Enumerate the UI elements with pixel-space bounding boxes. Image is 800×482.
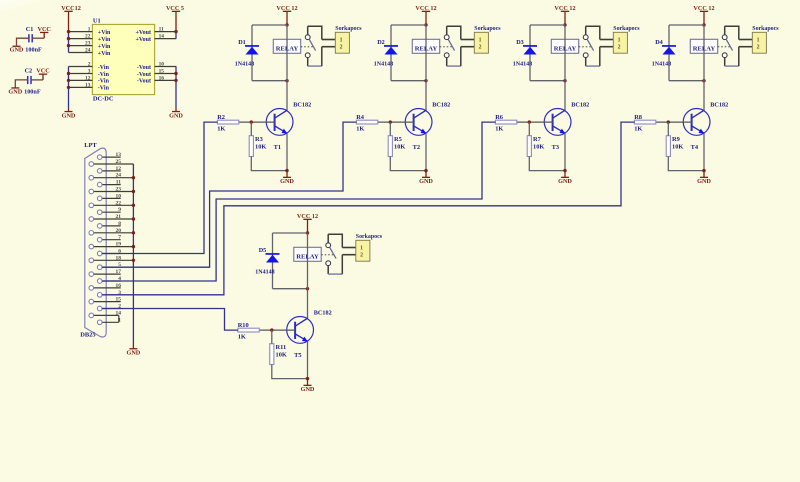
- wire -Vout bus: [175, 67, 177, 109]
- svg-text:DC-DC: DC-DC: [93, 95, 114, 102]
- pin 1 +Vin (U1): [69, 27, 111, 36]
- svg-text:1K: 1K: [238, 334, 246, 341]
- wire emitter (channel 4): [703, 133, 705, 170]
- wire diode branch (channel 5): [272, 233, 274, 289]
- junction node ground bus pin 24: [132, 176, 135, 179]
- junction node -Vin bus: [67, 72, 70, 75]
- svg-text:21: 21: [116, 214, 122, 220]
- svg-text:BC182: BC182: [571, 101, 589, 108]
- wire coil top (channel 5): [273, 232, 308, 234]
- svg-text:20: 20: [116, 228, 122, 234]
- pin 3 -Vin (U1): [69, 69, 110, 78]
- wire coil bottom (channel 3): [530, 80, 565, 82]
- junction node top (channel 3): [563, 23, 566, 26]
- pin 12 (DB25): [97, 166, 121, 173]
- svg-text:16: 16: [116, 283, 122, 289]
- svg-text:1: 1: [88, 27, 91, 33]
- pin 21 (DB25): [89, 214, 133, 221]
- svg-text:+Vin: +Vin: [98, 51, 111, 57]
- svg-text:T4: T4: [691, 144, 699, 151]
- junction node ground bus pin 18: [132, 259, 135, 262]
- ground GND (channel 2): [419, 171, 433, 186]
- svg-text:R4: R4: [356, 114, 365, 121]
- svg-text:GND: GND: [419, 178, 433, 185]
- svg-text:22: 22: [85, 34, 91, 40]
- power VCC (C2): [36, 68, 49, 80]
- svg-text:C2: C2: [25, 68, 33, 75]
- wire pulldown bottom (channel 3): [529, 157, 565, 171]
- wire pulldown bottom (channel 5): [272, 365, 308, 379]
- svg-text:12: 12: [85, 75, 91, 81]
- ground GND (channel 3): [558, 171, 572, 186]
- pin 1 (DB25): [97, 317, 121, 324]
- wire net pin2 to R10 (channel 5): [102, 309, 238, 331]
- wire VCC12 bus to +Vin pins: [68, 32, 70, 53]
- junction node base (channel 2): [389, 120, 392, 123]
- wire diode branch (channel 2): [390, 25, 392, 81]
- svg-text:C1: C1: [26, 26, 34, 33]
- transistor T4 BC182: [683, 109, 710, 136]
- svg-text:DB25: DB25: [80, 332, 95, 339]
- junction node ground bus pin 22: [132, 204, 135, 207]
- svg-text:23: 23: [116, 187, 122, 193]
- pin 22 (DB25): [89, 200, 133, 207]
- svg-text:D5: D5: [259, 247, 267, 254]
- svg-text:-Vout: -Vout: [137, 72, 151, 78]
- svg-text:RELAY: RELAY: [554, 45, 577, 52]
- wire pulldown top (channel 5): [271, 330, 273, 344]
- svg-text:LPT: LPT: [84, 142, 97, 149]
- svg-text:+Vout: +Vout: [135, 37, 151, 43]
- pin 2 -Vin (U1): [69, 62, 110, 71]
- svg-text:1: 1: [479, 37, 482, 43]
- svg-text:14: 14: [159, 34, 165, 40]
- junction node +Vin bus: [67, 37, 70, 40]
- svg-text:GND: GND: [10, 47, 24, 54]
- svg-text:19: 19: [116, 242, 122, 248]
- wire base (channel 2): [378, 121, 414, 123]
- wire base (channel 5): [259, 329, 295, 331]
- diode D4 1N4148: [662, 45, 676, 54]
- junction node -Vin bus: [67, 86, 70, 89]
- svg-text:Sorkapocs: Sorkapocs: [356, 234, 383, 240]
- svg-text:1: 1: [360, 245, 363, 251]
- wire -Vin bus: [68, 67, 70, 109]
- junction node ground bus pin 20: [132, 231, 135, 234]
- svg-text:GND: GND: [301, 386, 315, 393]
- svg-text:1N4148: 1N4148: [652, 62, 671, 68]
- junction node emitter (channel 3): [563, 169, 566, 172]
- svg-text:8: 8: [118, 221, 121, 227]
- svg-text:-Vout: -Vout: [137, 79, 151, 85]
- svg-text:R9: R9: [672, 136, 680, 143]
- switch contact SW5: [326, 234, 336, 274]
- junction node top (channel 4): [702, 23, 705, 26]
- svg-text:9: 9: [118, 207, 121, 213]
- junction node emitter (channel 4): [702, 169, 705, 172]
- svg-text:GND: GND: [280, 178, 294, 185]
- pin 11 (DB25): [97, 180, 121, 187]
- svg-text:GND: GND: [697, 178, 711, 185]
- junction node top (channel 5): [306, 231, 309, 234]
- wire pulldown bottom (channel 4): [668, 157, 704, 171]
- wire switch to terminal pin 2 (channel 4): [725, 47, 753, 66]
- pin 22 +Vin (U1): [69, 34, 111, 43]
- svg-text:RELAY: RELAY: [276, 45, 299, 52]
- pin 23 (DB25): [89, 187, 133, 194]
- pin 20 (DB25): [89, 228, 133, 235]
- terminal block connector (channel 3): [613, 32, 627, 53]
- svg-text:11: 11: [159, 27, 164, 33]
- wire base (channel 4): [656, 121, 692, 123]
- pin 5 (DB25): [97, 262, 121, 269]
- wire collector (channel 4): [703, 81, 705, 111]
- svg-text:R7: R7: [533, 136, 542, 143]
- capacitor C1 100nF: [29, 34, 32, 42]
- svg-text:RELAY: RELAY: [693, 45, 716, 52]
- svg-text:10K: 10K: [533, 143, 544, 150]
- junction node ground bus pin 21: [132, 217, 135, 220]
- resistor R4 1K: [356, 120, 377, 124]
- pin 14 +Vout (U1): [135, 34, 176, 43]
- wire switch to terminal pin 1 (channel 3): [586, 26, 614, 39]
- svg-text:2: 2: [757, 45, 760, 51]
- svg-text:RELAY: RELAY: [415, 45, 438, 52]
- svg-text:-Vin: -Vin: [98, 86, 110, 92]
- junction node bottom (channel 5): [306, 287, 309, 290]
- power VCC 12 (channel 5): [297, 213, 318, 233]
- svg-text:R8: R8: [634, 114, 642, 121]
- terminal block connector (channel 4): [752, 32, 766, 53]
- svg-text:22: 22: [116, 200, 122, 206]
- svg-text:R3: R3: [255, 136, 263, 143]
- pin 24 (DB25): [89, 173, 133, 180]
- dashed actuator link (channel 4): [718, 46, 731, 48]
- ground GND (U1 -Vout): [169, 108, 183, 119]
- svg-text:D2: D2: [377, 39, 385, 46]
- wire switch to terminal pin 1 (channel 2): [447, 26, 475, 39]
- wire pulldown top (channel 4): [667, 122, 669, 136]
- wire emitter (channel 1): [286, 133, 288, 170]
- svg-text:1K: 1K: [356, 126, 364, 133]
- wire switch to terminal pin 1 (channel 4): [725, 26, 753, 39]
- junction node bottom (channel 2): [424, 79, 427, 82]
- svg-text:BC182: BC182: [314, 309, 332, 316]
- pin 15 -Vout (U1): [137, 69, 176, 78]
- svg-text:Sorkapocs: Sorkapocs: [613, 26, 640, 32]
- connector LPT DB25 shell: [85, 148, 106, 337]
- svg-text:10K: 10K: [394, 143, 405, 150]
- terminal block connector (channel 2): [474, 32, 488, 53]
- diode D3 1N4148: [523, 45, 537, 54]
- pin 12 -Vin (U1): [69, 75, 110, 84]
- svg-text:R5: R5: [394, 136, 402, 143]
- junction node +Vin bus: [67, 30, 70, 33]
- junction node top (channel 1): [285, 23, 288, 26]
- resistor R10 1K: [238, 328, 259, 332]
- svg-text:3: 3: [88, 69, 91, 75]
- power VCC12 (input rail): [61, 5, 81, 32]
- wire base (channel 3): [517, 121, 553, 123]
- svg-text:17: 17: [116, 269, 122, 275]
- wire collector (channel 2): [425, 81, 427, 111]
- svg-text:GND: GND: [558, 178, 572, 185]
- svg-text:D4: D4: [655, 39, 663, 46]
- transistor T2 BC182: [405, 109, 432, 136]
- pin 24 +Vin (U1): [69, 48, 111, 57]
- wire C2 to ground: [15, 80, 27, 88]
- svg-text:D3: D3: [516, 39, 524, 46]
- svg-text:-Vout: -Vout: [137, 65, 151, 71]
- svg-text:T5: T5: [294, 352, 301, 359]
- svg-text:1N4148: 1N4148: [255, 270, 274, 276]
- pin 17 (DB25): [89, 269, 121, 276]
- power VCC 5 (output rail): [166, 5, 184, 32]
- DC-DC converter U1 body: [92, 24, 154, 94]
- resistor R8 1K: [634, 120, 655, 124]
- svg-text:+Vin: +Vin: [98, 37, 111, 43]
- resistor R5 10K: [388, 136, 392, 157]
- junction node base (channel 1): [250, 120, 253, 123]
- pin 4 (DB25): [97, 276, 121, 283]
- wire coil top (channel 1): [252, 24, 287, 26]
- pin 25 (DB25): [89, 159, 133, 166]
- svg-text:VCC: VCC: [37, 26, 50, 33]
- wire VCC to C1: [32, 37, 44, 39]
- pin 19 (DB25): [89, 242, 133, 249]
- wire collector (channel 5): [307, 289, 309, 319]
- wire emitter (channel 3): [564, 133, 566, 170]
- relay coil K3: [551, 25, 578, 81]
- svg-text:+Vin: +Vin: [98, 44, 111, 50]
- svg-text:24: 24: [85, 48, 91, 54]
- relay coil K5: [294, 233, 321, 289]
- wire switch to terminal pin 2 (channel 3): [586, 47, 614, 66]
- ground GND (channel 5): [301, 379, 315, 394]
- relay coil K2: [412, 25, 439, 81]
- wire emitter (channel 2): [425, 133, 427, 170]
- svg-text:2: 2: [360, 253, 363, 259]
- pin 10 -Vout (U1): [137, 62, 176, 71]
- junction node emitter (channel 2): [424, 169, 427, 172]
- junction node bottom (channel 4): [702, 79, 705, 82]
- power VCC 12 (channel 1): [276, 5, 297, 25]
- relay coil K4: [690, 25, 717, 81]
- svg-text:BC182: BC182: [710, 101, 728, 108]
- svg-text:U1: U1: [93, 18, 101, 25]
- ground GND (channel 4): [697, 171, 711, 186]
- resistor R2 1K: [217, 120, 238, 124]
- transistor T5 BC182: [287, 317, 314, 344]
- svg-text:15: 15: [116, 297, 122, 303]
- svg-text:10K: 10K: [672, 143, 683, 150]
- dashed actuator link (channel 1): [301, 46, 314, 48]
- junction node base (channel 4): [667, 120, 670, 123]
- power VCC (C1): [37, 26, 50, 38]
- transistor T3 BC182: [544, 109, 571, 136]
- pin 23 +Vin (U1): [69, 41, 111, 50]
- svg-text:23: 23: [85, 41, 91, 47]
- svg-text:BC182: BC182: [432, 101, 450, 108]
- pin 2 (DB25): [97, 304, 121, 311]
- svg-text:Sorkapocs: Sorkapocs: [752, 26, 779, 32]
- relay coil K1: [273, 25, 300, 81]
- wire C1 to ground: [17, 38, 29, 46]
- wire pulldown bottom (channel 1): [251, 157, 287, 171]
- wire net pin6 to R2 (channel 1): [102, 122, 217, 253]
- svg-text:1K: 1K: [634, 126, 642, 133]
- pin 15 (DB25): [89, 297, 121, 304]
- svg-text:1: 1: [340, 37, 343, 43]
- junction node -Vout bus: [174, 72, 177, 75]
- svg-text:GND: GND: [127, 350, 141, 357]
- wire pulldown top (channel 3): [528, 122, 530, 136]
- pin 18 (DB25): [89, 255, 133, 262]
- dashed actuator link (channel 3): [579, 46, 592, 48]
- junction node emitter (channel 1): [285, 169, 288, 172]
- svg-text:1N4148: 1N4148: [235, 62, 254, 68]
- svg-text:R2: R2: [217, 114, 225, 121]
- ground GND (channel 1): [280, 171, 294, 186]
- wire coil bottom (channel 2): [391, 80, 426, 82]
- svg-text:GND: GND: [62, 112, 76, 119]
- ground GND (C2): [8, 87, 22, 95]
- switch contact SW1: [305, 26, 315, 66]
- diode D5 1N4148: [266, 253, 280, 262]
- svg-text:2: 2: [479, 45, 482, 51]
- pin 16 (DB25): [89, 283, 121, 290]
- svg-text:10K: 10K: [276, 351, 287, 358]
- svg-text:R6: R6: [495, 114, 504, 121]
- svg-text:18: 18: [116, 255, 122, 261]
- wire net pin3 to R8 (channel 4): [102, 122, 634, 295]
- wire switch to terminal pin 1 (channel 5): [328, 234, 356, 247]
- svg-text:10: 10: [116, 193, 122, 199]
- svg-text:GND: GND: [8, 88, 22, 95]
- svg-text:1: 1: [618, 37, 621, 43]
- pin 11 +Vout (U1): [135, 27, 176, 36]
- junction node ground bus pin 19: [132, 245, 135, 248]
- wire pulldown top (channel 2): [389, 122, 391, 136]
- svg-text:D1: D1: [238, 39, 246, 46]
- pin 7 (DB25): [97, 235, 121, 242]
- svg-text:T2: T2: [413, 144, 420, 151]
- diode D2 1N4148: [384, 45, 398, 54]
- wire switch to terminal pin 2 (channel 2): [447, 47, 475, 66]
- junction node -Vin bus: [67, 79, 70, 82]
- wire collector (channel 1): [286, 81, 288, 111]
- svg-text:+Vin: +Vin: [98, 30, 111, 36]
- svg-text:1K: 1K: [495, 126, 503, 133]
- power VCC 12 (channel 3): [554, 5, 575, 25]
- pin 16 -Vout (U1): [137, 75, 176, 84]
- switch contact SW3: [583, 26, 593, 66]
- power VCC 12 (channel 4): [693, 5, 714, 25]
- resistor R6 1K: [495, 120, 516, 124]
- svg-text:2: 2: [340, 45, 343, 51]
- svg-text:Sorkapocs: Sorkapocs: [474, 26, 501, 32]
- wire net pin4 to R6 (channel 3): [102, 122, 495, 281]
- ground GND (U1 -Vin): [62, 108, 76, 119]
- junction node top (channel 2): [424, 23, 427, 26]
- wire switch to terminal pin 2 (channel 5): [328, 255, 356, 274]
- svg-text:+Vout: +Vout: [135, 30, 151, 36]
- svg-text:-Vin: -Vin: [98, 79, 110, 85]
- wire coil top (channel 2): [391, 24, 426, 26]
- svg-text:11: 11: [116, 180, 121, 186]
- svg-text:12: 12: [116, 166, 122, 172]
- svg-text:BC182: BC182: [293, 101, 311, 108]
- svg-text:1K: 1K: [217, 126, 225, 133]
- pin 6 (DB25): [97, 249, 121, 256]
- svg-text:1N4148: 1N4148: [374, 62, 393, 68]
- svg-text:GND: GND: [169, 112, 183, 119]
- pin 13 (DB25): [97, 152, 121, 159]
- wire pulldown top (channel 1): [250, 122, 252, 136]
- svg-text:R10: R10: [238, 322, 249, 329]
- junction node +Vin bus: [67, 44, 70, 47]
- svg-text:100nF: 100nF: [24, 88, 41, 95]
- resistor R11 10K: [270, 344, 274, 365]
- svg-text:15: 15: [159, 69, 165, 75]
- pin 10 (DB25): [97, 193, 121, 200]
- ground GND (C1): [10, 46, 24, 54]
- wire coil top (channel 4): [669, 24, 704, 26]
- terminal block connector (channel 5): [356, 240, 370, 261]
- switch contact SW2: [444, 26, 454, 66]
- resistor R7 10K: [527, 136, 531, 157]
- wire net pin5 to R4 (channel 2): [102, 122, 356, 267]
- svg-text:RELAY: RELAY: [296, 253, 319, 260]
- capacitor C2 100nF: [28, 76, 31, 84]
- power VCC 12 (channel 2): [415, 5, 436, 25]
- dashed actuator link (channel 5): [321, 254, 334, 256]
- wire pulldown bottom (channel 2): [390, 157, 426, 171]
- svg-text:1N4148: 1N4148: [513, 62, 532, 68]
- svg-text:2: 2: [618, 45, 621, 51]
- pin 14 (DB25): [89, 310, 121, 317]
- pin 8 (DB25): [97, 221, 121, 228]
- diode D1 1N4148: [245, 45, 259, 54]
- junction node bottom (channel 3): [563, 79, 566, 82]
- junction node bottom (channel 1): [285, 79, 288, 82]
- svg-text:24: 24: [116, 173, 122, 179]
- svg-text:-Vin: -Vin: [98, 65, 110, 71]
- svg-text:Sorkapocs: Sorkapocs: [335, 26, 362, 32]
- junction node -Vout bus: [174, 79, 177, 82]
- wire switch to terminal pin 1 (channel 1): [308, 26, 336, 39]
- junction node base (channel 3): [528, 120, 531, 123]
- svg-text:10K: 10K: [255, 143, 266, 150]
- wire diode branch (channel 3): [529, 25, 531, 81]
- resistor R3 10K: [249, 136, 253, 157]
- svg-text:25: 25: [116, 159, 122, 165]
- dashed actuator link (channel 2): [440, 46, 453, 48]
- wire tying DB25 pins 14 and 1: [118, 315, 120, 322]
- pin 3 (DB25): [97, 290, 121, 297]
- wire diode branch (channel 4): [668, 25, 670, 81]
- switch contact SW4: [722, 26, 732, 66]
- svg-text:13: 13: [85, 82, 91, 88]
- svg-text:7: 7: [118, 235, 121, 241]
- wire coil top (channel 3): [530, 24, 565, 26]
- wire switch to terminal pin 2 (channel 1): [308, 47, 336, 66]
- svg-text:VCC: VCC: [36, 68, 49, 75]
- junction node ground bus pin 23: [132, 190, 135, 193]
- ground GND (DB25 bus): [127, 344, 141, 357]
- wire emitter (channel 5): [307, 341, 309, 378]
- terminal block connector (channel 1): [335, 32, 349, 53]
